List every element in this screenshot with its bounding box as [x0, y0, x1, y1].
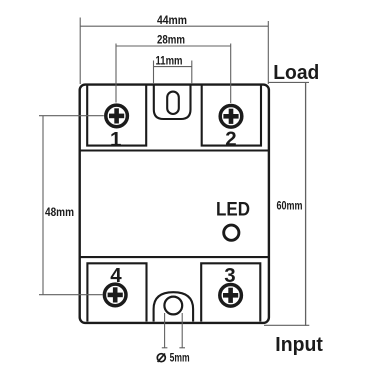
dimension hole extension line right: [181, 313, 183, 348]
dimension label 48mm: [44, 204, 75, 219]
svg-text:LED: LED: [216, 198, 250, 220]
dimension 60mm leader bottom: [264, 324, 309, 326]
divider line upper: [79, 149, 269, 151]
svg-text:48mm: 48mm: [45, 205, 74, 219]
svg-text:2: 2: [225, 127, 236, 150]
terminal box 4: [87, 263, 146, 321]
dimension hole tick right: [179, 347, 185, 349]
top mounting tab: [154, 86, 191, 120]
LED indicator circle: [224, 225, 239, 240]
diameter symbol: [157, 354, 165, 362]
dimension 44mm line: [80, 25, 268, 27]
dimension hole extension line left: [164, 313, 166, 348]
top mounting slot: [167, 92, 179, 114]
dimension 48mm leader top: [39, 115, 104, 117]
dimension 60mm leader top: [268, 81, 309, 83]
dimension 11mm line: [154, 66, 192, 68]
svg-text:60mm: 60mm: [277, 199, 303, 213]
dimension 28mm line: [116, 45, 231, 47]
divider line lower: [79, 256, 269, 258]
dimension 44mm extension line left: [79, 18, 81, 85]
svg-text:3: 3: [224, 264, 235, 287]
dimension 11mm extension line right: [191, 61, 193, 85]
svg-text:4: 4: [110, 264, 122, 287]
dimension 44mm extension line right: [267, 21, 269, 84]
screw terminal 1: [106, 105, 128, 127]
terminal box 1: [87, 86, 146, 146]
dimension 48mm vertical line: [42, 116, 44, 295]
svg-text:Input: Input: [275, 334, 323, 356]
svg-text:28mm: 28mm: [157, 33, 185, 47]
svg-text:5mm: 5mm: [170, 351, 190, 365]
svg-text:11mm: 11mm: [156, 53, 183, 67]
screw terminal 2: [220, 106, 242, 128]
dimension 28mm extension line right: [230, 44, 232, 104]
screw terminal 3: [220, 285, 242, 307]
svg-text:Load: Load: [273, 62, 319, 84]
screw terminal 4: [104, 284, 126, 306]
terminal box 2: [202, 86, 261, 146]
terminal box 3: [201, 263, 260, 321]
dimension 11mm extension line left: [153, 61, 155, 85]
bottom mounting tab: [154, 292, 194, 321]
dimension hole tick left: [162, 347, 168, 349]
dimension 48mm leader bottom: [39, 294, 103, 296]
dimension 60mm vertical line: [305, 82, 307, 325]
dimension 28mm extension line left: [115, 44, 117, 103]
relay body outline: [80, 85, 269, 323]
bottom mounting hole: [164, 297, 182, 315]
svg-text:1: 1: [110, 128, 121, 151]
svg-text:44mm: 44mm: [157, 13, 187, 27]
